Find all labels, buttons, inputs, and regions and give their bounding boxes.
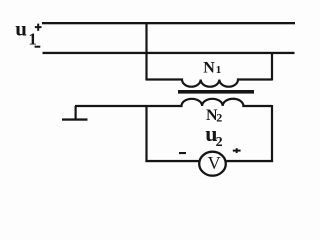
voltmeter V circle: [199, 152, 226, 176]
wire: bottom left segment to voltmeter: [145, 160, 199, 162]
svg-text:V: V: [208, 153, 221, 173]
svg-text:1: 1: [28, 29, 37, 48]
ground stub: [75, 106, 77, 120]
wire: secondary left vertical: [145, 105, 147, 162]
minus sign of u1: [35, 46, 41, 48]
svg-text:N: N: [203, 60, 215, 77]
svg-text:1: 1: [216, 64, 222, 76]
wire: ground wire + N2 lead: [75, 99, 272, 106]
minus sign at voltmeter: [179, 152, 186, 154]
wire: left vertical from top line to N1: [145, 22, 147, 81]
plus sign of u1: [35, 26, 42, 28]
transformer core: [178, 90, 254, 94]
svg-text:u: u: [15, 16, 27, 40]
plus sign at voltmeter: [233, 150, 241, 152]
inductor N1 winding: [147, 80, 273, 87]
wire: secondary right vertical: [271, 105, 273, 162]
wire: second supply line: [43, 52, 295, 54]
ground bar: [62, 118, 88, 120]
svg-text:2: 2: [216, 135, 223, 150]
wire: top supply line: [42, 22, 295, 24]
wire: N1 right vertical to second line: [271, 52, 273, 81]
wire: bottom right segment from voltmeter: [227, 160, 274, 162]
